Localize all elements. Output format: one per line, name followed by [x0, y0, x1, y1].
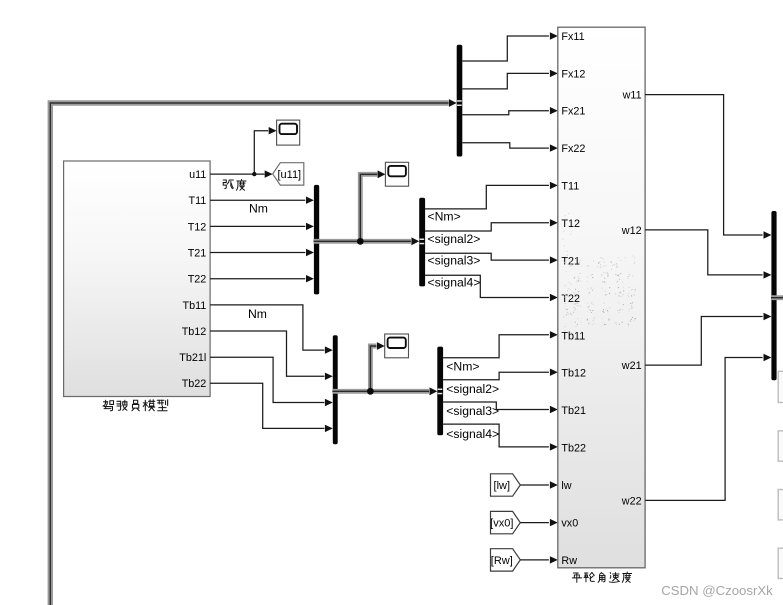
svg-text:<signal2>: <signal2> — [446, 382, 499, 396]
svg-text:<Nm>: <Nm> — [446, 359, 479, 373]
svg-text:<signal3>: <signal3> — [428, 253, 481, 267]
svg-text:T11: T11 — [188, 195, 206, 207]
svg-text:<signal2>: <signal2> — [428, 232, 481, 246]
svg-text:Fx12: Fx12 — [561, 68, 585, 80]
svg-text:Tb11: Tb11 — [182, 300, 206, 312]
svg-text:[u11]: [u11] — [277, 169, 301, 181]
svg-text:w21: w21 — [621, 360, 642, 372]
svg-text:[vx0]: [vx0] — [490, 518, 513, 530]
svg-text:T21: T21 — [188, 247, 207, 259]
svg-text:T22: T22 — [188, 274, 207, 286]
svg-text:w22: w22 — [621, 495, 642, 507]
svg-text:Tb11: Tb11 — [561, 330, 585, 342]
svg-text:<signal4>: <signal4> — [446, 427, 499, 441]
svg-text:T11: T11 — [561, 181, 579, 193]
svg-text:<Nm>: <Nm> — [428, 209, 461, 223]
svg-text:Nm: Nm — [248, 307, 267, 321]
svg-text:Tb22: Tb22 — [561, 443, 586, 455]
svg-text:Tb21: Tb21 — [561, 405, 586, 417]
svg-text:w11: w11 — [622, 90, 642, 102]
svg-text:Tb12: Tb12 — [182, 326, 207, 338]
svg-text:Tb22: Tb22 — [182, 378, 207, 390]
svg-text:[Rw]: [Rw] — [491, 555, 513, 567]
svg-text:Tb21l: Tb21l — [179, 352, 206, 364]
svg-text:Fx22: Fx22 — [561, 143, 585, 155]
svg-text:<signal4>: <signal4> — [428, 275, 481, 289]
svg-text:[lw]: [lw] — [494, 480, 511, 492]
svg-text:w12: w12 — [621, 225, 642, 237]
svg-text:Fx11: Fx11 — [561, 31, 584, 43]
svg-text:lw: lw — [561, 480, 571, 492]
svg-text:vx0: vx0 — [561, 517, 578, 529]
svg-text:Fx21: Fx21 — [561, 106, 585, 118]
svg-text:Rw: Rw — [561, 555, 577, 567]
svg-text:Tb12: Tb12 — [561, 368, 586, 380]
svg-text:CSDN @CzoosrXk: CSDN @CzoosrXk — [661, 583, 773, 598]
svg-text:u11: u11 — [189, 169, 206, 181]
svg-text:T12: T12 — [561, 218, 580, 230]
svg-text:T12: T12 — [188, 221, 207, 233]
svg-text:<signal3>: <signal3> — [446, 404, 499, 418]
svg-text:Nm: Nm — [249, 202, 268, 216]
